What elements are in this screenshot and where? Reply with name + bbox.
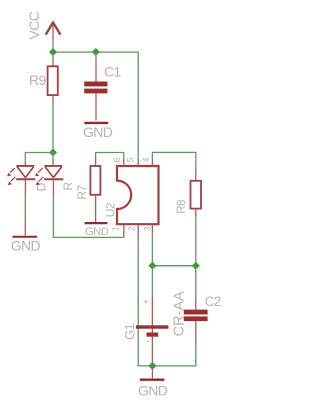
- wire R9 to LED junction: [52, 104, 54, 153]
- junction at VCC: [49, 48, 57, 56]
- svg-text:R9: R9: [29, 72, 47, 88]
- svg-text:R7: R7: [75, 185, 89, 200]
- svg-text:-: -: [146, 337, 149, 348]
- svg-text:6: 6: [112, 158, 123, 163]
- wire LED1 to ground: [24, 195, 26, 221]
- svg-text:R8: R8: [176, 200, 188, 214]
- wire C2 to bottom rail: [152, 342, 195, 366]
- svg-text:1: 1: [111, 226, 121, 231]
- wire mid rail to battery: [151, 266, 153, 297]
- svg-text:GND: GND: [85, 226, 109, 238]
- wire VCC stub to junction: [52, 42, 54, 53]
- svg-text:3: 3: [142, 226, 152, 231]
- ground below C1: [83, 123, 113, 140]
- wire junction down to LED2: [52, 153, 54, 161]
- svg-text:+: +: [143, 298, 149, 309]
- junction mid rail right: [192, 262, 200, 270]
- wire junction left to LED1: [25, 153, 53, 162]
- svg-text:C2: C2: [205, 294, 221, 309]
- U2 pin 4 stub: [151, 159, 153, 166]
- svg-text:G1: G1: [122, 323, 137, 340]
- svg-text:VCC: VCC: [26, 11, 42, 39]
- svg-text:GND: GND: [138, 383, 168, 399]
- svg-text:GND: GND: [83, 124, 113, 140]
- wire R7 top to U2 pin 6: [96, 153, 124, 160]
- resistor R9: [29, 58, 58, 104]
- wire top rail: [53, 51, 138, 53]
- U2 pin 3 stub: [151, 224, 153, 232]
- U2 pin 2 stub: [137, 224, 139, 241]
- ground below LED1: [11, 221, 41, 254]
- resistor R7: [75, 157, 100, 222]
- U2 pin 5 stub: [137, 159, 139, 166]
- ground below R7: [85, 223, 109, 238]
- svg-text:GND: GND: [11, 238, 41, 254]
- wire LED2 cathode to U2 pin 1: [53, 195, 123, 237]
- junction at C1: [92, 48, 100, 56]
- junction bottom: [148, 362, 156, 370]
- svg-text:5: 5: [125, 158, 136, 163]
- supply symbol VCC: [26, 11, 60, 41]
- wire rail down to U2 pin 5: [137, 52, 139, 159]
- wire mid rail: [152, 265, 195, 267]
- junction above LEDs: [49, 149, 57, 157]
- IC U2 body: [103, 166, 158, 224]
- wire mid rail to C2: [195, 266, 197, 297]
- capacitor C2: [184, 294, 221, 342]
- LED D1: [7, 161, 35, 195]
- svg-text:R: R: [61, 182, 75, 191]
- battery G1: [122, 291, 188, 366]
- svg-text:C1: C1: [104, 64, 122, 80]
- svg-text:2: 2: [127, 226, 137, 231]
- resistor R8: [176, 172, 201, 217]
- U2 pin 1 stub: [123, 224, 125, 237]
- wire U2 pin 2 to battery minus rail: [138, 241, 152, 366]
- wire U2 pin 4 to R8: [152, 152, 195, 172]
- U2 pin 6 stub: [123, 159, 125, 166]
- capacitor C1: [84, 52, 121, 120]
- wire U2 pin 3 down: [151, 232, 153, 266]
- LED D2: [35, 161, 63, 196]
- svg-text:4: 4: [141, 158, 152, 163]
- svg-text:U2: U2: [103, 202, 117, 217]
- wire R8 to bottom rail: [195, 217, 197, 266]
- junction mid rail left: [148, 262, 156, 270]
- wire junction to R9: [52, 52, 54, 58]
- ground at bottom: [138, 366, 168, 399]
